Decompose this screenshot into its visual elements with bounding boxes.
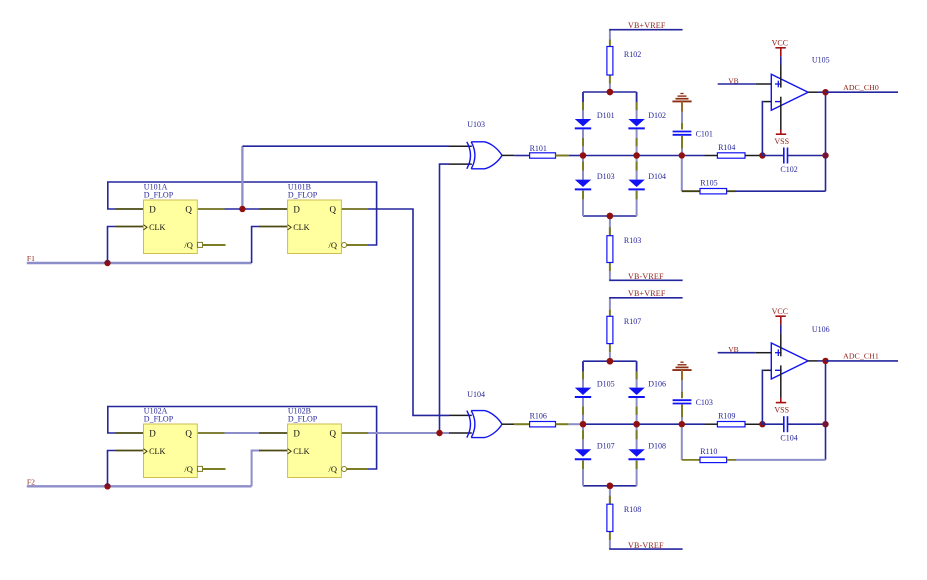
op-amp U106 <box>771 343 808 379</box>
wire VCC to U106 <box>780 325 782 334</box>
wire F1 to U101A CLK <box>108 227 117 264</box>
pin U102A /Q stub <box>203 468 226 470</box>
svg-text:VCC: VCC <box>772 307 788 316</box>
wire node to C104 <box>762 423 783 425</box>
svg-text:CLK: CLK <box>293 447 309 456</box>
svg-text:/Q: /Q <box>184 464 193 474</box>
svg-text:ADC_CH0: ADC_CH0 <box>843 83 879 92</box>
power rail VB-VREF wire <box>609 279 682 281</box>
svg-text:R104: R104 <box>718 143 735 152</box>
wire U105 to VSS <box>780 97 782 130</box>
svg-text:R105: R105 <box>700 179 717 188</box>
junction F1 / CLK U101A <box>104 260 110 266</box>
wire Q U102A to D U102B <box>225 432 260 434</box>
junction node QA <box>239 206 245 212</box>
svg-text:D: D <box>149 205 156 215</box>
junction bridge top re <box>607 358 613 364</box>
wire gate input stub bottom <box>449 432 472 434</box>
wire F2 to U102B CLK <box>252 451 260 487</box>
bridge mid wire <box>583 423 705 425</box>
junction bridge bottom re <box>607 213 613 219</box>
junction bridge bottom final <box>607 483 613 489</box>
wire R105 to output column <box>727 190 736 192</box>
svg-text:R109: R109 <box>718 412 735 421</box>
wire mid node down to R105 <box>681 159 683 192</box>
svg-text:VB+VREF: VB+VREF <box>628 289 666 298</box>
power symbol VSS <box>776 402 786 404</box>
bridge mid wire <box>583 155 705 157</box>
wire C104 to output node <box>788 423 826 425</box>
ground symbol <box>672 100 691 102</box>
wire bridge branch segments <box>582 361 584 387</box>
svg-text:VSS: VSS <box>774 405 789 414</box>
wire U104 out to R106 <box>514 423 529 425</box>
svg-text:U104: U104 <box>467 390 485 399</box>
svg-text:D_FLOP: D_FLOP <box>144 190 174 199</box>
capacitor C104 <box>783 416 785 432</box>
diode D102 <box>628 119 644 126</box>
op-amp U105 <box>771 74 808 110</box>
junction mid node C <box>679 152 685 158</box>
svg-text:D106: D106 <box>648 379 666 388</box>
wire R106 to bridge <box>556 423 569 425</box>
svg-text:Q: Q <box>330 205 337 215</box>
wire F2 input run <box>27 485 252 487</box>
power rail VB+VREF wire <box>609 297 682 299</box>
pin U102B /Q stub <box>347 468 368 470</box>
wire /Q U102B feedback to D U102A <box>108 407 377 470</box>
wire /Q U101B feedback to D U101A <box>108 182 377 245</box>
wire VCC to U105 <box>780 56 782 65</box>
svg-text:R101: R101 <box>530 144 547 153</box>
junction bridge top final <box>607 358 613 364</box>
junction bridge top final <box>607 89 613 95</box>
bridge bottom rail wire <box>583 215 637 217</box>
svg-text:VB-VREF: VB-VREF <box>628 272 664 281</box>
svg-text:ADC_CH1: ADC_CH1 <box>843 352 879 361</box>
pin U101A D <box>116 208 144 210</box>
wire U103 out to R101 <box>514 155 529 157</box>
junction bridge mid right re <box>633 421 639 427</box>
svg-text:Q: Q <box>330 429 337 439</box>
svg-text:R102: R102 <box>624 50 641 59</box>
junction inverting node <box>759 152 765 158</box>
svg-text:C101: C101 <box>696 129 713 138</box>
resistor R104 <box>717 153 745 158</box>
junction bridge mid right <box>633 152 639 158</box>
resistor R106 <box>530 422 556 427</box>
svg-text:CLK: CLK <box>149 447 165 456</box>
diode D104 <box>628 180 644 187</box>
svg-text:C104: C104 <box>780 434 797 443</box>
junction output node <box>822 358 828 364</box>
resistor R109 <box>717 422 745 427</box>
wire Q U101B to XOR U104 input A <box>368 209 449 415</box>
bridge top rail wire <box>583 360 637 362</box>
svg-text:R108: R108 <box>624 505 641 514</box>
wire bridge top to R107 <box>609 352 611 361</box>
XOR U104 input pin stub top <box>449 414 472 416</box>
power rail VB-VREF wire <box>609 548 682 550</box>
svg-text:VSS: VSS <box>774 137 789 146</box>
wire R110 to output column <box>727 459 736 461</box>
wire node to C102 <box>762 155 783 157</box>
wire bridge branch segments <box>636 361 638 387</box>
svg-text:D102: D102 <box>648 111 666 120</box>
junction node QB2 <box>436 430 442 436</box>
svg-text:/Q: /Q <box>329 240 338 250</box>
svg-text:D: D <box>293 429 300 439</box>
wire output net ADC_CH0 <box>826 91 899 93</box>
pin U101B D <box>259 208 288 210</box>
junction bridge bottom re <box>607 483 613 489</box>
resistor R108 <box>607 504 613 531</box>
junction output node <box>822 89 828 95</box>
svg-text:CLK: CLK <box>149 223 165 232</box>
diode D101 <box>575 119 591 126</box>
wire output column vertical <box>825 361 827 460</box>
svg-text:/Q: /Q <box>184 240 193 250</box>
pin U102B Q <box>340 432 368 434</box>
XOR U104 output pin <box>502 423 514 425</box>
pin U106 output <box>808 360 817 362</box>
XOR U103 input pin stubs <box>449 145 472 147</box>
wire QA up to XOR U103 input A <box>241 146 243 209</box>
wire Q U101A to D U101B <box>225 208 260 210</box>
svg-text:U106: U106 <box>812 325 830 334</box>
diode D106 <box>628 388 644 395</box>
svg-text:R103: R103 <box>624 236 641 245</box>
svg-text:C103: C103 <box>696 398 713 407</box>
wire VB to U105 + input <box>718 83 756 85</box>
svg-text:C102: C102 <box>780 165 797 174</box>
svg-text:D103: D103 <box>597 172 615 181</box>
wire bridge bottom to R108 <box>609 486 611 504</box>
junction bridge top <box>607 358 613 364</box>
svg-text:D: D <box>293 205 300 215</box>
wire ground to C101 <box>681 101 683 112</box>
svg-text:R107: R107 <box>624 317 641 326</box>
junction bridge top re <box>607 89 613 95</box>
svg-text:VB-VREF: VB-VREF <box>628 541 664 550</box>
svg-text:D_FLOP: D_FLOP <box>144 414 174 423</box>
resistor R101 <box>530 153 556 158</box>
svg-text:D_FLOP: D_FLOP <box>288 190 318 199</box>
XOR U103 output pin <box>502 154 514 156</box>
svg-text:Q: Q <box>185 205 192 215</box>
wire C101 to mid node <box>681 136 683 156</box>
wire R101 to bridge <box>556 155 569 157</box>
svg-text:R106: R106 <box>530 411 547 420</box>
wire ground to C103 <box>681 370 683 381</box>
junction bridge bottom <box>607 483 613 489</box>
junction output column mid <box>822 421 828 427</box>
pin U101A CLK <box>116 226 144 228</box>
pin U102A D <box>116 432 144 434</box>
svg-text:R110: R110 <box>700 447 717 456</box>
svg-text:/Q: /Q <box>329 464 338 474</box>
junction bridge bottom final <box>607 213 613 219</box>
wire inverting node to U106 - input <box>761 370 764 424</box>
ground symbol <box>672 369 691 371</box>
svg-text:U105: U105 <box>812 56 830 65</box>
resistor R102 <box>607 47 613 76</box>
svg-text:D107: D107 <box>597 441 615 450</box>
D flip-flop U102A <box>144 424 198 478</box>
wire bridge branch segments <box>582 92 584 119</box>
pin U102A CLK <box>116 450 144 452</box>
junction F2 / CLK U102A <box>104 483 110 489</box>
xor-gate U103 <box>467 142 471 169</box>
wire XOR U103 input B vertical from node QB2 <box>440 164 450 433</box>
junction bridge mid left <box>580 421 586 427</box>
resistor R105 <box>700 189 727 194</box>
pin U102B CLK <box>259 450 288 452</box>
wire F1 to U101B CLK <box>252 227 260 264</box>
resistor R103 <box>607 236 613 263</box>
resistor R107 <box>607 316 613 343</box>
svg-text:Q: Q <box>185 429 192 439</box>
wire bridge bottom to R103 <box>609 216 611 236</box>
svg-text:VCC: VCC <box>772 39 788 48</box>
wire Q U102B to XOR inputs <box>368 432 449 434</box>
svg-text:D108: D108 <box>648 441 666 450</box>
svg-text:D_FLOP: D_FLOP <box>288 414 318 423</box>
wire bridge top to R102 <box>609 84 611 93</box>
capacitor C101 <box>673 131 692 133</box>
wire F1 input run <box>27 262 252 264</box>
D flip-flop U101B <box>288 200 342 254</box>
pin R104 right <box>745 155 762 157</box>
svg-text:CLK: CLK <box>293 223 309 232</box>
svg-text:D101: D101 <box>597 111 615 120</box>
xor-gate U104 <box>467 411 471 438</box>
junction bridge mid right <box>633 421 639 427</box>
pin U105 output <box>808 91 817 93</box>
svg-text:D105: D105 <box>597 379 615 388</box>
pin U102A Q <box>198 432 225 434</box>
wire VB to U106 + input <box>718 352 756 354</box>
wire output column vertical <box>825 92 827 191</box>
wire output net ADC_CH1 <box>826 360 899 362</box>
junction bridge mid right re <box>633 152 639 158</box>
bridge top rail wire <box>583 91 637 93</box>
junction inverting node <box>759 421 765 427</box>
svg-text:VB+VREF: VB+VREF <box>628 21 666 30</box>
wire C103 to mid node <box>681 405 683 425</box>
svg-text:D: D <box>149 429 156 439</box>
diode D107 <box>575 449 591 456</box>
junction bridge mid left re <box>580 152 586 158</box>
pin U101B Q <box>340 208 368 210</box>
wire C102 to output node <box>788 155 826 157</box>
junction mid node C <box>679 421 685 427</box>
capacitor C102 <box>783 148 785 164</box>
pin U101A /Q stub <box>203 244 226 246</box>
power symbol VSS <box>776 133 786 135</box>
capacitor C103 <box>673 399 692 401</box>
D flip-flop U101A <box>144 200 198 254</box>
power rail VB+VREF wire <box>609 29 682 31</box>
wire F2 to U102A CLK <box>108 451 117 487</box>
D flip-flop U102B <box>288 424 342 478</box>
wire U106 to VSS <box>780 365 782 398</box>
resistor R110 <box>700 457 727 462</box>
pin R109 right <box>745 423 762 425</box>
svg-text:D104: D104 <box>648 172 666 181</box>
diode D103 <box>575 180 591 187</box>
pin U101A Q <box>198 208 225 210</box>
junction bridge mid left <box>580 152 586 158</box>
junction output column mid <box>822 152 828 158</box>
pin U101B CLK <box>259 226 288 228</box>
svg-text:U103: U103 <box>467 120 485 129</box>
diode D105 <box>575 388 591 395</box>
junction bridge bottom <box>607 213 613 219</box>
diode D108 <box>628 449 644 456</box>
wire bridge branch segments <box>636 92 638 119</box>
wire inverting node to U105 - input <box>761 102 764 156</box>
pin U101B /Q stub <box>347 244 368 246</box>
junction bridge top <box>607 89 613 95</box>
junction bridge mid left re <box>580 421 586 427</box>
pin U102B D <box>259 432 288 434</box>
bridge bottom rail wire <box>583 485 637 487</box>
wire mid node down to R110 <box>681 427 683 460</box>
